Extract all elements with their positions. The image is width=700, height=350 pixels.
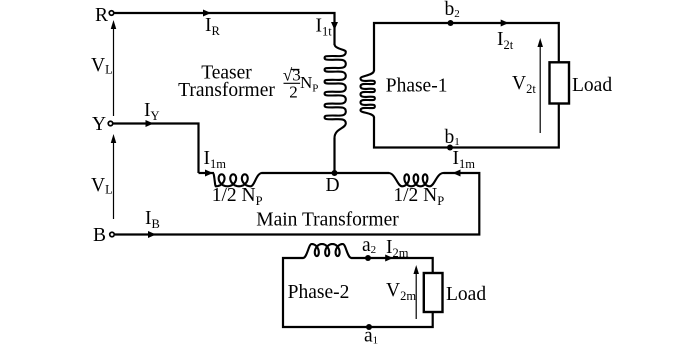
- node a1: [366, 324, 372, 330]
- V_L arrow lower: [113, 141, 115, 219]
- wire: teaser lead down to D: [333, 138, 335, 173]
- radical overbar: [291, 69, 300, 71]
- phase-1 secondary coil: [361, 71, 375, 118]
- V_2m arrow: [415, 272, 417, 319]
- svg-text:V2m: V2m: [386, 280, 416, 303]
- svg-text:Main Transformer: Main Transformer: [256, 210, 399, 231]
- current arrow I_1t down: [331, 22, 338, 30]
- svg-text:I1t: I1t: [316, 16, 333, 39]
- svg-text:R: R: [95, 5, 108, 26]
- phase-2 secondary coil: [303, 244, 352, 258]
- Phase-1 loop wires: [374, 23, 559, 148]
- svg-text:2: 2: [289, 83, 298, 102]
- svg-text:Transformer: Transformer: [178, 80, 275, 101]
- current arrow I_B: [148, 231, 156, 238]
- terminal R: [109, 11, 114, 16]
- node b2: [448, 20, 454, 26]
- svg-text:a1: a1: [364, 326, 378, 347]
- current arrow I_1m left: [205, 170, 213, 177]
- svg-text:I1m: I1m: [204, 148, 227, 171]
- svg-text:D: D: [325, 175, 339, 196]
- current arrow I_2m: [385, 255, 393, 262]
- svg-text:V2t: V2t: [512, 73, 536, 96]
- node b1: [447, 145, 453, 151]
- terminal Y: [108, 121, 113, 126]
- current arrow I_Y: [146, 120, 154, 127]
- current arrow I_2t: [501, 20, 509, 27]
- svg-text:b2: b2: [445, 0, 460, 20]
- svg-text:IY: IY: [144, 100, 160, 123]
- svg-text:Load: Load: [572, 75, 612, 96]
- main left half coil: [213, 173, 262, 186]
- teaser primary coil sqrt3/2 Np: [325, 44, 346, 138]
- svg-text:I2m: I2m: [386, 237, 409, 260]
- terminal B: [110, 232, 115, 237]
- wire: Y line bending down to main transformer: [113, 124, 199, 174]
- svg-text:B: B: [93, 225, 106, 246]
- svg-text:Phase-2: Phase-2: [288, 282, 350, 303]
- V_2t arrow: [539, 45, 541, 133]
- node a2: [365, 255, 371, 261]
- svg-text:I1m: I1m: [453, 148, 476, 171]
- svg-text:Y: Y: [92, 114, 106, 135]
- load box phase-2: [424, 273, 443, 312]
- svg-text:IB: IB: [145, 208, 160, 231]
- svg-text:NP: NP: [300, 73, 318, 95]
- current arrow I_1m right: [453, 170, 461, 177]
- main right half coil: [389, 173, 444, 186]
- svg-text:b1: b1: [445, 127, 460, 148]
- svg-text:VL: VL: [91, 55, 113, 77]
- svg-text:Load: Load: [446, 284, 486, 305]
- svg-text:Phase-1: Phase-1: [386, 76, 448, 97]
- node D: [332, 170, 338, 176]
- wire: R phase top line into teaser primary: [114, 13, 335, 45]
- current arrow I_R: [203, 10, 211, 17]
- load box phase-1: [550, 62, 570, 103]
- svg-text:1/2 NP: 1/2 NP: [393, 185, 444, 208]
- Phase-2 loop wires: [283, 258, 433, 327]
- svg-text:IR: IR: [205, 15, 221, 38]
- wire: B line and right riser to main winding end: [115, 173, 479, 235]
- svg-text:a2: a2: [362, 235, 376, 256]
- svg-text:VL: VL: [91, 175, 113, 197]
- svg-text:1/2 NP: 1/2 NP: [212, 185, 263, 208]
- V_L arrow upper: [113, 27, 115, 116]
- main transformer winding line: [199, 172, 215, 174]
- svg-text:I2t: I2t: [497, 29, 514, 52]
